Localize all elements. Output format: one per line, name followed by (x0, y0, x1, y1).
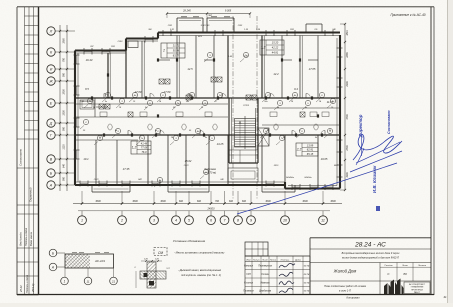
svg-text:№док: №док (270, 258, 277, 261)
svg-text:И.В. Климюк: И.В. Климюк (372, 165, 377, 193)
svg-text:Х.П: Х.П (165, 268, 170, 270)
svg-text:в осях 1-П: в осях 1-П (339, 290, 351, 293)
svg-text:Изм: Изм (246, 259, 251, 261)
svg-text:ОФ1: ОФ1 (290, 28, 294, 31)
svg-text:ОФ3: ОФ3 (118, 40, 123, 43)
svg-text:Стадия: Стадия (384, 264, 393, 267)
svg-text:3700: 3700 (346, 114, 349, 120)
svg-text:04П: 04П (138, 178, 142, 181)
svg-text:Д: Д (49, 121, 53, 125)
svg-text:Копировал: Копировал (347, 296, 360, 300)
svg-text:А: А (51, 265, 54, 269)
svg-text:17.35: 17.35 (123, 167, 130, 171)
svg-text:ОФ1: ОФ1 (168, 24, 172, 27)
svg-text:- Дымовой канал, вентиляционн: - Дымовой канал, вентиляционные (178, 268, 222, 272)
svg-text:89: 89 (403, 272, 407, 276)
svg-text:Перевертов: Перевертов (258, 266, 272, 268)
svg-text:1: 1 (81, 219, 83, 223)
svg-text:41: 41 (443, 295, 447, 299)
svg-text:2500: 2500 (346, 145, 349, 152)
svg-text:600: 600 (197, 200, 202, 203)
svg-text:1,2: 1,2 (261, 46, 266, 50)
svg-text:9.4: 9.4 (294, 87, 298, 91)
svg-text:РАБОТ: РАБОТ (414, 291, 421, 294)
svg-text:ОФ1: ОФ1 (111, 45, 115, 48)
svg-text:42.22: 42.22 (272, 46, 279, 50)
svg-text:План отделочных работ 2А этажа: План отделочных работ 2А этажа (324, 285, 366, 288)
svg-text:2,2: 2,2 (296, 148, 302, 152)
svg-text:13.89: 13.89 (307, 143, 314, 147)
svg-text:9.005: 9.005 (225, 9, 232, 12)
svg-text:3.30 1.30: 3.30 1.30 (201, 25, 211, 27)
svg-text:А: А (49, 183, 53, 187)
svg-text:Б: Б (52, 251, 54, 255)
svg-text:600: 600 (179, 200, 184, 203)
svg-text:УПРАВЛЕНИЕ: УПРАВЛЕНИЕ (411, 286, 424, 289)
svg-text:Справочный: Справочный (30, 187, 33, 202)
svg-text:Подпись и дата: Подпись и дата (25, 227, 28, 246)
svg-text:Согласовано: Согласовано (387, 110, 391, 134)
svg-text:62.91: 62.91 (307, 148, 314, 152)
svg-text:3600: 3600 (132, 200, 138, 203)
svg-text:19.05: 19.05 (321, 157, 328, 161)
svg-text:Приложение к № АС-40: Приложение к № АС-40 (390, 13, 425, 17)
svg-text:77.08: 77.08 (141, 146, 148, 150)
svg-text:Директор: Директор (358, 114, 363, 138)
svg-text:9: 9 (250, 219, 252, 223)
svg-text:Кол.уч: Кол.уч (253, 259, 260, 261)
svg-text:11: 11 (86, 279, 89, 283)
svg-text:12.5: 12.5 (187, 67, 193, 71)
svg-text:1120: 1120 (63, 144, 66, 150)
svg-text:28.24: 28.24 (19, 285, 23, 293)
svg-text:04.49бл: 04.49бл (304, 176, 312, 179)
svg-text:4: 4 (175, 219, 177, 223)
svg-text:под кирпичн. каналы (см. 5а п.: под кирпичн. каналы (см. 5а п. 1) (181, 273, 221, 277)
svg-text:А.19: А.19 (243, 55, 249, 58)
svg-text:1: 1 (64, 279, 66, 283)
svg-text:63.77: 63.77 (173, 54, 180, 58)
svg-text:8.5: 8.5 (85, 87, 89, 91)
svg-text:2: 2 (120, 219, 123, 223)
svg-text:09.74: 09.74 (304, 281, 310, 284)
svg-text:700: 700 (215, 200, 220, 203)
svg-text:10.1: 10.1 (83, 157, 89, 161)
svg-text:Щербакова: Щербакова (259, 291, 272, 293)
svg-text:580: 580 (63, 72, 66, 77)
svg-text:Лист: Лист (261, 259, 268, 261)
svg-text:580: 580 (63, 176, 66, 181)
svg-text:АК СПЕЦПРОЕКТ: АК СПЕЦПРОЕКТ (409, 283, 426, 286)
svg-text:Лифтовая: Лифтовая (203, 168, 216, 171)
svg-text:3600: 3600 (330, 200, 336, 203)
svg-text:13.25: 13.25 (217, 142, 224, 146)
svg-text:1500: 1500 (63, 89, 66, 95)
svg-text:28.240: 28.240 (182, 9, 191, 12)
svg-text:76.0: 76.0 (141, 150, 147, 154)
svg-text:1560: 1560 (63, 38, 66, 44)
svg-text:17.85: 17.85 (309, 67, 316, 71)
svg-text:м=(0,70 кв): м=(0,70 кв) (204, 173, 216, 175)
svg-text:2900: 2900 (346, 81, 349, 88)
svg-text:28.24 - АС: 28.24 - АС (354, 242, 386, 249)
svg-text:Начальн: Начальн (244, 266, 254, 268)
svg-text:Жилой Дом: Жилой Дом (333, 269, 357, 274)
svg-text:Встройные малогабаритных жилог: Встройные малогабаритных жилого доме 9 с… (342, 252, 400, 255)
svg-text:3000: 3000 (160, 200, 166, 203)
svg-text:2680: 2680 (346, 52, 349, 59)
svg-text:Ж: Ж (48, 79, 53, 83)
svg-text:15.20: 15.20 (272, 41, 279, 45)
svg-text:1810: 1810 (346, 30, 349, 36)
svg-text:1,2: 1,2 (132, 146, 137, 150)
svg-text:11: 11 (321, 219, 325, 223)
svg-text:50.98: 50.98 (173, 49, 180, 53)
svg-text:ОФП: ОФП (184, 164, 189, 167)
svg-text:04.49бл: 04.49бл (286, 176, 295, 179)
svg-text:Н.контр: Н.контр (244, 282, 254, 284)
svg-text:600: 600 (229, 200, 234, 203)
svg-text:3000: 3000 (302, 200, 308, 203)
svg-text:31.71: 31.71 (173, 44, 180, 48)
svg-text:- Место установки стиральной: - Место установки стиральной машины (174, 251, 224, 255)
svg-text:ОП13: ОП13 (243, 105, 250, 107)
svg-text:ПВЛ: ПВЛ (208, 15, 213, 17)
svg-text:ОФ: ОФ (314, 28, 318, 31)
svg-text:600: 600 (242, 200, 247, 203)
svg-text:10: 10 (283, 219, 287, 223)
svg-text:24000: 24000 (207, 208, 216, 211)
svg-text:Лист: Лист (401, 265, 408, 267)
svg-text:Стоян: Стоян (261, 274, 269, 276)
svg-text:Иванова: Иванова (260, 282, 270, 284)
svg-text:580: 580 (63, 126, 66, 131)
svg-text:41.48: 41.48 (141, 141, 148, 145)
svg-text:21: 21 (111, 279, 116, 283)
svg-text:Подпись и дата: Подпись и дата (26, 274, 29, 293)
svg-text:Листов: Листов (417, 265, 427, 267)
svg-text:780: 780 (63, 57, 66, 62)
svg-text:65.15: 65.15 (307, 152, 314, 156)
svg-text:Подпись: Подпись (281, 258, 291, 261)
svg-text:ОФП: ОФП (94, 178, 99, 181)
svg-text:Л: Л (49, 29, 53, 33)
svg-text:0.81: 0.81 (170, 29, 174, 31)
svg-text:09.74: 09.74 (304, 290, 310, 293)
svg-text:И: И (50, 67, 53, 71)
svg-text:СМ: СМ (158, 251, 163, 255)
svg-text:Взам. инв.№: Взам. инв.№ (30, 231, 33, 246)
svg-text:Проверил: Проверил (243, 291, 254, 293)
svg-text:8: 8 (237, 219, 239, 223)
svg-text:15.02: 15.02 (185, 159, 192, 163)
svg-text:09.74: 09.74 (304, 273, 310, 276)
svg-text:3000: 3000 (265, 200, 271, 203)
svg-text:16.43: 16.43 (86, 58, 93, 62)
svg-text:25/1-4у: 25/1-4у (31, 283, 35, 293)
svg-text:5: 5 (188, 219, 190, 223)
svg-text:17.80: 17.80 (164, 90, 171, 94)
svg-text:Согласовано: Согласовано (19, 148, 23, 166)
svg-text:640: 640 (63, 163, 66, 168)
svg-text:АС-101: АС-101 (94, 259, 105, 263)
svg-text:Дата: Дата (294, 259, 302, 261)
svg-text:2: 2 (162, 49, 165, 53)
svg-text:1300: 1300 (63, 110, 66, 116)
svg-text:жилые домов модернизируемой в: жилые домов модернизируемой в Арктике 9Н… (341, 257, 399, 260)
svg-text:12.2: 12.2 (273, 72, 279, 76)
svg-text:1900: 1900 (346, 172, 349, 178)
svg-text:3: 3 (153, 219, 155, 223)
svg-text:Условные обозначения: Условные обозначения (173, 239, 206, 243)
svg-text:6: 6 (210, 219, 212, 223)
svg-text:09.74: 09.74 (304, 265, 310, 268)
svg-text:ГАП: ГАП (246, 273, 251, 276)
svg-text:44.81: 44.81 (272, 51, 279, 55)
svg-text:Инв.№подл.: Инв.№подл. (20, 232, 23, 246)
svg-text:17.80: 17.80 (135, 90, 142, 94)
svg-text:3600: 3600 (95, 200, 101, 203)
svg-text:ПРОЕКТНЫХ: ПРОЕКТНЫХ (411, 289, 424, 291)
